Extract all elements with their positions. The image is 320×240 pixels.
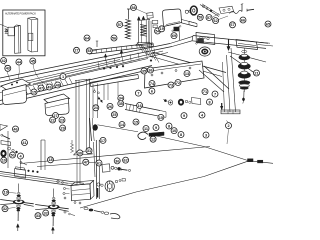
leader 19 bbox=[9, 191, 17, 194]
gearbox side bbox=[90, 181, 94, 200]
leader 42 curve bbox=[5, 64, 11, 81]
callout 19 bbox=[3, 189, 9, 195]
spring bolt bbox=[128, 9, 130, 20]
svg-text:62: 62 bbox=[213, 19, 217, 23]
callout 72 bbox=[175, 80, 181, 86]
callout 71 bbox=[202, 89, 208, 95]
leader 44 curve bbox=[18, 65, 19, 79]
svg-text:30: 30 bbox=[78, 151, 82, 155]
svg-text:7: 7 bbox=[137, 91, 139, 95]
svg-text:3: 3 bbox=[205, 133, 207, 137]
bottom rail flat 2 bbox=[37, 162, 97, 167]
tongue diagonal line 2 bbox=[230, 56, 258, 75]
leader 64 pin bbox=[96, 41, 98, 47]
chain hook bbox=[110, 214, 120, 219]
lever cable down bbox=[94, 142, 96, 177]
svg-text:11: 11 bbox=[144, 127, 148, 131]
svg-text:71: 71 bbox=[203, 90, 207, 94]
inset left post top bbox=[14, 25, 16, 27]
svg-text:18: 18 bbox=[48, 158, 52, 162]
tower base flare bbox=[136, 42, 153, 45]
svg-text:8: 8 bbox=[168, 124, 170, 128]
tongue channel bracket bbox=[196, 33, 215, 45]
svg-text:35: 35 bbox=[142, 69, 146, 73]
svg-text:67: 67 bbox=[230, 23, 234, 27]
svg-text:47: 47 bbox=[39, 86, 43, 90]
drive pulley bbox=[105, 181, 114, 192]
svg-text:41: 41 bbox=[22, 141, 26, 145]
pulley ridges bbox=[106, 182, 108, 190]
right frame diagonal bbox=[204, 66, 229, 89]
svg-text:9: 9 bbox=[155, 126, 157, 130]
callout 24 bbox=[93, 105, 99, 111]
top bracket parts bbox=[219, 6, 234, 13]
mid tower legs bbox=[75, 80, 77, 152]
left vertical member bbox=[7, 131, 9, 168]
callout 59 bbox=[197, 14, 203, 20]
mid tower cap bbox=[75, 79, 91, 81]
right lid front face bbox=[45, 98, 69, 116]
small parts right of pulley bbox=[115, 180, 118, 183]
callout 27 bbox=[74, 47, 80, 53]
svg-text:36: 36 bbox=[115, 159, 119, 163]
svg-text:23: 23 bbox=[60, 118, 64, 122]
tongue left cap bbox=[192, 36, 193, 41]
under-deck washers right bbox=[185, 100, 188, 103]
callout 12 bbox=[150, 136, 156, 142]
small dark bits cluster bbox=[98, 98, 100, 100]
pull bolt dark bbox=[221, 103, 223, 110]
svg-text:31: 31 bbox=[87, 149, 91, 153]
inset left post side face bbox=[18, 26, 20, 53]
rail bolts bbox=[28, 170, 30, 172]
svg-text:9: 9 bbox=[183, 114, 185, 118]
callout 49 bbox=[46, 84, 52, 90]
top pin bbox=[241, 4, 243, 11]
svg-text:6: 6 bbox=[151, 89, 153, 93]
svg-text:27: 27 bbox=[74, 49, 78, 53]
tongue diagonal line 1 bbox=[228, 52, 266, 62]
callout 11 bbox=[143, 126, 149, 132]
cable exit line bbox=[253, 161, 273, 163]
stack dome 3 bbox=[238, 72, 250, 78]
engine plate inner line bbox=[147, 64, 202, 72]
leader 57 bbox=[123, 25, 127, 27]
callout 58 bbox=[131, 5, 137, 11]
callout 56 bbox=[111, 35, 117, 41]
svg-text:16: 16 bbox=[137, 104, 141, 108]
bottom rail inner bbox=[0, 174, 84, 186]
deck rear rail top line bbox=[0, 44, 170, 79]
callout 9 bbox=[153, 125, 159, 131]
callout 14 bbox=[119, 122, 125, 128]
clamp part 2 dark bbox=[198, 39, 204, 43]
idler pulley bbox=[199, 47, 210, 56]
tower side lines bbox=[148, 21, 150, 50]
callout 69 bbox=[171, 33, 177, 39]
L bracket bbox=[1, 141, 11, 146]
under-deck channel bar bbox=[90, 75, 138, 83]
callout 44 bbox=[16, 59, 22, 65]
svg-text:32: 32 bbox=[3, 207, 7, 211]
callout 57 bbox=[206, 15, 212, 21]
svg-text:46: 46 bbox=[13, 127, 17, 131]
callout 8 bbox=[207, 99, 213, 105]
callout 41 bbox=[22, 140, 28, 146]
svg-text:36: 36 bbox=[148, 68, 152, 72]
svg-text:73: 73 bbox=[169, 83, 173, 87]
inset box alternate power pack frame bbox=[3, 10, 45, 56]
hanger bolt bbox=[121, 168, 128, 171]
leader from 2 bbox=[227, 129, 229, 144]
callout 27 bbox=[53, 113, 59, 119]
svg-text:53: 53 bbox=[87, 49, 91, 53]
svg-text:42: 42 bbox=[1, 59, 5, 63]
inset right post bbox=[28, 17, 38, 52]
svg-text:17: 17 bbox=[101, 139, 105, 143]
callout 35 bbox=[118, 101, 124, 107]
engine plate bbox=[145, 61, 205, 88]
post dark segment bbox=[97, 188, 99, 198]
mid hanger lines bbox=[103, 84, 105, 100]
under-deck dark bolt bbox=[164, 100, 166, 102]
svg-text:13: 13 bbox=[185, 72, 189, 76]
rail to tongue connector 2 bbox=[172, 41, 192, 47]
svg-text:49: 49 bbox=[47, 85, 51, 89]
hitch channel inner bbox=[238, 43, 256, 45]
svg-text:ALTERNATE POWER PACK: ALTERNATE POWER PACK bbox=[5, 12, 36, 16]
callout 50 bbox=[10, 152, 16, 158]
leader 45 curve bbox=[33, 64, 52, 88]
deck right rear edge bbox=[152, 52, 226, 73]
callout 46 bbox=[13, 126, 19, 132]
tower lower legs bbox=[76, 156, 78, 185]
channel bar bolts bbox=[94, 91, 96, 93]
under-deck idler 1 bbox=[168, 100, 172, 105]
svg-text:56: 56 bbox=[112, 36, 116, 40]
left leg pair bbox=[40, 140, 42, 170]
callout 15 bbox=[158, 114, 164, 120]
deck bottom channel top bbox=[0, 172, 84, 184]
callout 73 bbox=[168, 82, 174, 88]
mid tower base bbox=[74, 151, 93, 155]
callout 31 bbox=[86, 148, 92, 154]
svg-text:1: 1 bbox=[62, 75, 64, 79]
svg-text:61: 61 bbox=[97, 161, 101, 165]
svg-text:8: 8 bbox=[180, 133, 182, 137]
right blade spindle bbox=[35, 205, 68, 209]
stack dome 1 bbox=[239, 55, 250, 60]
gearbox shaft washers bbox=[97, 183, 100, 186]
under-deck idler 2 bbox=[178, 99, 184, 105]
svg-text:32: 32 bbox=[44, 211, 48, 215]
callout 30 bbox=[77, 150, 83, 156]
callout 47 bbox=[83, 159, 89, 165]
spring tower bbox=[138, 21, 140, 44]
left lid top bbox=[1, 79, 31, 92]
callout 17 bbox=[100, 137, 106, 143]
callout 18 bbox=[48, 157, 54, 163]
cable clevis dark bbox=[149, 132, 164, 136]
right spindle arrow A bbox=[52, 227, 55, 230]
callout 32 bbox=[43, 210, 49, 216]
deck bottom channel bottom bbox=[0, 176, 84, 188]
callout 15 bbox=[133, 119, 139, 125]
chain link 1 bbox=[84, 207, 88, 209]
callout 22 bbox=[50, 117, 56, 123]
down arrow bolt bbox=[227, 47, 230, 51]
deck rear rail third line bbox=[0, 60, 120, 88]
callout 9 bbox=[181, 113, 187, 119]
hitch channel bbox=[236, 40, 258, 50]
washer pair left of rail bbox=[57, 180, 59, 182]
svg-text:50: 50 bbox=[10, 153, 14, 157]
corner flag bracket bbox=[0, 125, 8, 131]
callout 61 bbox=[96, 160, 102, 166]
cable pull line 2 bbox=[227, 55, 231, 112]
callout 13 bbox=[184, 71, 190, 77]
inset bracket bolts bbox=[5, 28, 9, 31]
deck front edge mid bbox=[0, 59, 148, 93]
inset mounting bracket bbox=[8, 27, 15, 36]
callout 10 bbox=[171, 128, 177, 134]
deck rail extra 2 bbox=[33, 53, 168, 85]
gearbox top bbox=[71, 181, 94, 186]
right lid top bbox=[44, 94, 70, 105]
callout 29 bbox=[60, 125, 66, 131]
svg-text:47: 47 bbox=[84, 161, 88, 165]
rail bolt heads bbox=[103, 68, 105, 70]
deck hatch slots bbox=[6, 92, 10, 99]
callout 66 bbox=[240, 17, 246, 23]
spring coil bbox=[125, 20, 130, 40]
idler arm linkage bbox=[200, 5, 219, 17]
svg-text:2: 2 bbox=[227, 124, 229, 128]
diag bolt bbox=[3, 136, 11, 140]
svg-text:12: 12 bbox=[151, 138, 155, 142]
small washers bbox=[8, 147, 11, 150]
guard plate bottom edge bbox=[164, 23, 182, 27]
callout 23 bbox=[59, 117, 65, 123]
callout 53 bbox=[86, 48, 92, 54]
svg-text:19: 19 bbox=[160, 27, 164, 31]
svg-text:57: 57 bbox=[207, 16, 211, 20]
inset leader line bbox=[0, 24, 8, 28]
pull base bracket bbox=[221, 110, 240, 114]
lower cable leg bbox=[80, 161, 248, 208]
svg-text:10: 10 bbox=[172, 129, 176, 133]
svg-text:15: 15 bbox=[159, 116, 163, 120]
gearbox bbox=[71, 184, 91, 201]
cable pull line 3 bbox=[223, 62, 225, 112]
vertical post center bbox=[95, 140, 97, 199]
svg-text:58: 58 bbox=[131, 6, 135, 10]
deck rear rail second line bbox=[0, 47, 172, 83]
pulley washers bbox=[185, 10, 188, 13]
callout 36 bbox=[148, 67, 154, 73]
hook loop bbox=[138, 132, 148, 140]
callout 16 bbox=[137, 102, 143, 108]
callout 4 bbox=[18, 153, 24, 159]
engine plate holes bbox=[151, 74, 153, 76]
svg-text:21: 21 bbox=[254, 71, 258, 75]
deck right front edge bbox=[150, 56, 222, 77]
callout 47 bbox=[38, 85, 44, 91]
small bracket top bbox=[147, 12, 153, 18]
svg-text:65: 65 bbox=[266, 22, 270, 26]
stack top washer bbox=[242, 50, 247, 52]
cable second fitting bbox=[258, 160, 263, 163]
callout 1 bbox=[60, 74, 66, 80]
leader 32L bbox=[8, 207, 15, 208]
gearbox bolts bbox=[63, 187, 65, 189]
engine pulley bbox=[190, 6, 197, 15]
deck front rail top bbox=[0, 66, 152, 101]
tongue bracket holes bbox=[200, 36, 202, 38]
left blade spindle bbox=[0, 200, 34, 204]
arm parts bbox=[202, 5, 204, 7]
channel arrow 1 bbox=[104, 54, 107, 57]
guard plate pole bbox=[178, 26, 181, 40]
tower arrows bbox=[137, 17, 140, 20]
inset left post bbox=[14, 26, 21, 54]
callout 7 bbox=[135, 90, 141, 96]
deck front rail bottom bbox=[0, 70, 150, 105]
small rect parts bbox=[152, 20, 158, 23]
front rail channel bbox=[125, 104, 160, 111]
svg-text:8: 8 bbox=[208, 100, 210, 104]
svg-text:29: 29 bbox=[60, 126, 64, 130]
callout 21 bbox=[254, 70, 260, 76]
svg-text:57: 57 bbox=[118, 23, 122, 27]
knob to hook link bbox=[98, 125, 139, 132]
cable pull line 1 bbox=[231, 48, 236, 112]
deck corner hatch bbox=[137, 42, 143, 52]
svg-text:43: 43 bbox=[6, 67, 10, 71]
stack centerline bbox=[243, 48, 245, 92]
small pulley dark bbox=[1, 150, 7, 157]
svg-text:72: 72 bbox=[176, 81, 180, 85]
callout 42 bbox=[1, 58, 7, 64]
svg-text:66: 66 bbox=[241, 18, 245, 22]
callout 8 bbox=[178, 132, 184, 138]
spring clip wire bbox=[230, 10, 243, 13]
svg-text:25: 25 bbox=[112, 113, 116, 117]
callout 33 bbox=[35, 213, 41, 219]
right lid face line bbox=[46, 103, 69, 108]
leader 57 62 bbox=[210, 14, 219, 19]
callout 45 bbox=[30, 58, 36, 64]
arm end cap bbox=[189, 21, 197, 27]
callout 67 bbox=[230, 22, 236, 28]
strip ticks bbox=[90, 50, 92, 53]
inset right post top edges bbox=[28, 18, 32, 20]
callout 8 bbox=[166, 123, 172, 129]
bolt with spring small bbox=[71, 144, 74, 153]
hanger bracket plate bbox=[102, 164, 110, 172]
left lid face line bbox=[4, 90, 27, 96]
svg-text:48: 48 bbox=[56, 83, 60, 87]
callout 35 bbox=[141, 68, 147, 74]
callout 15 bbox=[31, 89, 37, 95]
channel arrow 2 bbox=[120, 50, 123, 53]
callout 7 bbox=[212, 91, 218, 97]
callout 48 bbox=[55, 82, 61, 88]
lever knob bbox=[93, 125, 98, 131]
hanger washers bbox=[111, 166, 114, 169]
right frame diagonal 2 bbox=[199, 70, 224, 92]
callout 62 bbox=[123, 157, 129, 163]
svg-text:59: 59 bbox=[198, 16, 202, 20]
tower coil bbox=[140, 25, 147, 37]
right spindle extra bits bbox=[64, 211, 66, 213]
callout 3 bbox=[203, 132, 209, 138]
left lid front face bbox=[3, 85, 27, 105]
stack washers bbox=[239, 81, 250, 85]
front channel hatch bbox=[126, 104, 127, 110]
callout 2 bbox=[226, 123, 232, 129]
chain link 3 bbox=[94, 211, 101, 213]
clamp part dark bbox=[174, 27, 179, 31]
callout 64 bbox=[84, 35, 90, 41]
leader 53 bbox=[93, 50, 97, 52]
svg-text:45: 45 bbox=[31, 59, 35, 63]
lift channel strip bbox=[89, 43, 154, 51]
tongue upper bar bbox=[193, 36, 268, 44]
svg-text:69: 69 bbox=[172, 34, 176, 38]
leader 4 down bbox=[20, 160, 22, 170]
callout 32 bbox=[2, 206, 8, 212]
callout 10 bbox=[1, 157, 7, 163]
hitch end lines bbox=[258, 45, 274, 47]
cable vertex fitting bbox=[248, 159, 254, 162]
top bolt right bbox=[247, 9, 254, 10]
svg-text:15: 15 bbox=[32, 90, 36, 94]
callout 26 bbox=[107, 103, 113, 109]
callout 34 bbox=[118, 95, 124, 101]
callout 74 bbox=[149, 81, 155, 87]
stack leader marks bbox=[251, 71, 257, 73]
inset right post front edge bbox=[30, 20, 32, 52]
svg-text:19: 19 bbox=[4, 191, 8, 195]
tower cap bbox=[138, 19, 151, 20]
under-deck legs bbox=[92, 84, 94, 118]
callout 6 bbox=[149, 88, 155, 94]
svg-text:26: 26 bbox=[108, 105, 112, 109]
under-deck bracket bbox=[192, 98, 201, 105]
left lid bolts bbox=[11, 84, 13, 86]
svg-text:15: 15 bbox=[134, 120, 138, 124]
svg-text:33: 33 bbox=[36, 214, 40, 218]
callout 25 bbox=[111, 112, 117, 118]
leader 63 to bracket bbox=[136, 9, 147, 14]
callout 4 bbox=[199, 112, 205, 118]
guard plate bbox=[162, 9, 181, 27]
guard arm bbox=[182, 20, 197, 24]
tongue lower bar bbox=[192, 41, 266, 49]
left spindle arrow A bbox=[16, 224, 19, 227]
rail bracket small bbox=[16, 167, 26, 170]
upper cable leg bbox=[152, 135, 248, 161]
callout 62 bbox=[213, 18, 219, 24]
callout 57 bbox=[117, 22, 123, 28]
callout 54 bbox=[155, 28, 161, 34]
svg-text:10: 10 bbox=[2, 159, 6, 163]
callout 65 bbox=[265, 21, 271, 27]
lift lever post bbox=[90, 118, 92, 141]
bottom rail long top bbox=[20, 147, 210, 164]
svg-text:22: 22 bbox=[50, 118, 54, 122]
